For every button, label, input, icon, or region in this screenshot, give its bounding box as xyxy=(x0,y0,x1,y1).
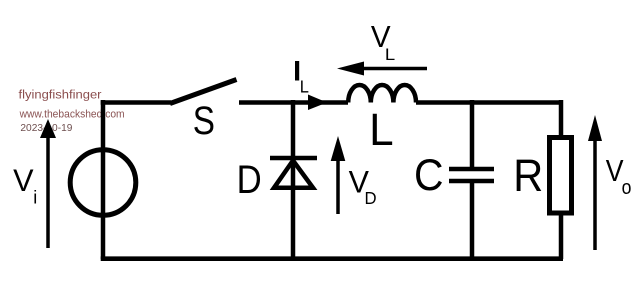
svg-text:C: C xyxy=(414,150,443,200)
svg-text:D: D xyxy=(237,157,262,202)
svg-text:i: i xyxy=(33,188,37,208)
svg-text:L: L xyxy=(300,77,309,96)
svg-text:o: o xyxy=(622,176,632,198)
svg-text:flyingfishfinger: flyingfishfinger xyxy=(19,87,102,101)
svg-text:V: V xyxy=(13,163,34,198)
svg-text:R: R xyxy=(513,152,543,202)
svg-text:www.thebackshed.com: www.thebackshed.com xyxy=(19,108,125,120)
svg-text:S: S xyxy=(193,98,215,143)
svg-text:L: L xyxy=(385,45,396,64)
svg-text:D: D xyxy=(365,188,377,209)
svg-text:L: L xyxy=(369,105,394,155)
